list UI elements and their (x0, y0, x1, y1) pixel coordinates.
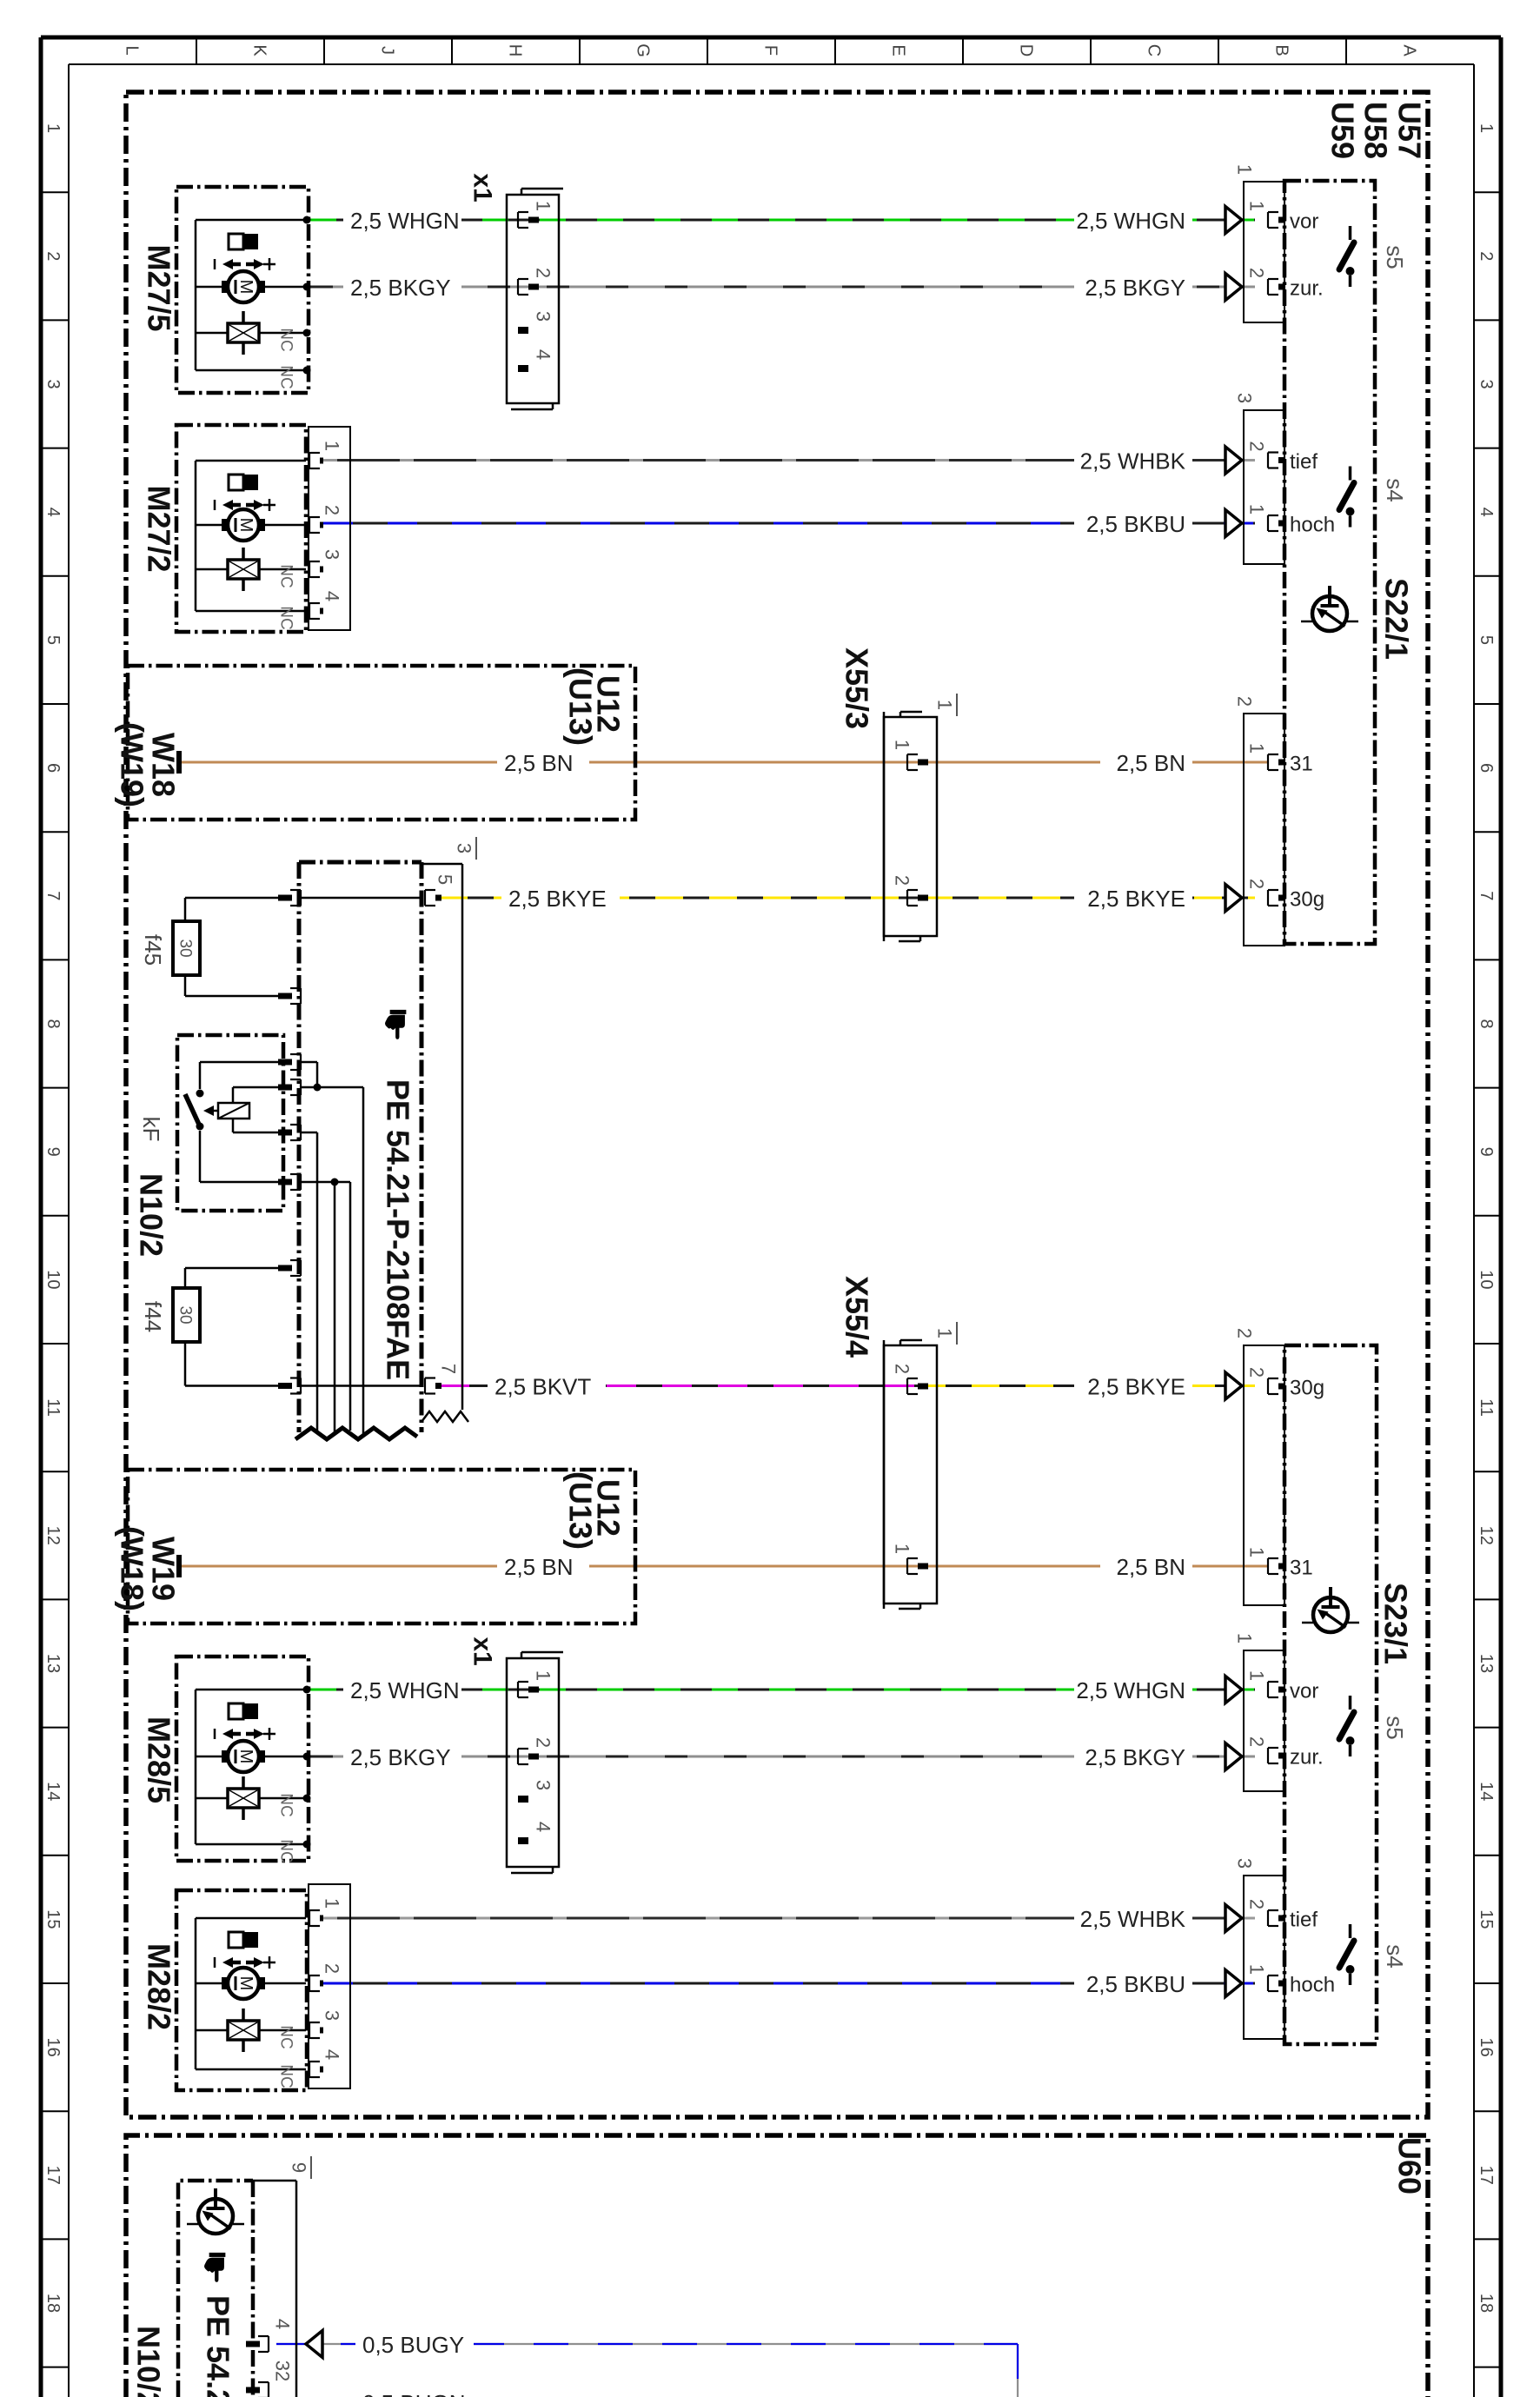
svg-text:2: 2 (1477, 251, 1496, 261)
svg-text:C: C (1145, 44, 1164, 56)
svg-text:5: 5 (434, 874, 455, 885)
svg-text:vor: vor (1290, 209, 1318, 233)
svg-text:2,5 BKGY: 2,5 BKGY (1085, 1744, 1185, 1770)
svg-text:2,5 WHBK: 2,5 WHBK (1080, 448, 1186, 475)
svg-text:5: 5 (1477, 635, 1496, 645)
svg-text:30g: 30g (1290, 1376, 1324, 1399)
svg-text:X55/3: X55/3 (839, 647, 874, 729)
svg-text:H: H (506, 44, 525, 56)
svg-text:1: 1 (933, 1328, 955, 1338)
svg-text:13: 13 (43, 1654, 63, 1673)
svg-text:NC: NC (276, 328, 295, 351)
svg-text:7: 7 (43, 891, 63, 900)
svg-text:2,5 WHGN: 2,5 WHGN (1076, 208, 1185, 234)
svg-text:2: 2 (1245, 1736, 1267, 1747)
svg-text:1: 1 (1233, 1633, 1255, 1643)
svg-text:3: 3 (321, 2010, 342, 2021)
svg-text:vor: vor (1290, 1679, 1318, 1703)
svg-text:G: G (634, 43, 653, 57)
svg-text:4: 4 (532, 1822, 554, 1832)
svg-text:4: 4 (321, 2049, 342, 2060)
svg-text:2,5 BKBU: 2,5 BKBU (1086, 1971, 1185, 1997)
svg-text:2,5 BKGY: 2,5 BKGY (1085, 275, 1185, 301)
svg-text:s4: s4 (1382, 1944, 1408, 1968)
svg-text:7: 7 (437, 1364, 459, 1374)
svg-text:NC: NC (276, 1793, 295, 1816)
svg-text:1: 1 (1245, 1547, 1267, 1557)
svg-text:X55/4: X55/4 (839, 1276, 874, 1358)
svg-text:2: 2 (1245, 268, 1267, 278)
svg-text:NC: NC (276, 606, 295, 629)
svg-text:6: 6 (43, 763, 63, 773)
svg-text:30: 30 (176, 1305, 194, 1324)
svg-text:3: 3 (532, 311, 554, 322)
svg-text:NC: NC (276, 2064, 295, 2088)
svg-text:11: 11 (43, 1398, 63, 1417)
svg-text:2: 2 (43, 251, 63, 261)
svg-text:2,5 WHGN: 2,5 WHGN (1076, 1677, 1185, 1703)
svg-text:D: D (1017, 44, 1036, 56)
svg-text:31: 31 (1290, 1556, 1313, 1579)
svg-text:f45: f45 (140, 934, 166, 966)
svg-text:S23/1: S23/1 (1377, 1583, 1413, 1664)
svg-text:2,5 BN: 2,5 BN (504, 1554, 574, 1580)
svg-text:tief: tief (1290, 450, 1318, 474)
svg-text:PE 54.21-P-2108FAE: PE 54.21-P-2108FAE (380, 1079, 415, 1380)
svg-text:1: 1 (532, 201, 554, 211)
svg-text:1: 1 (891, 1544, 913, 1554)
svg-text:NC: NC (276, 2025, 295, 2048)
svg-text:4: 4 (271, 2319, 293, 2329)
svg-text:4: 4 (1477, 508, 1496, 517)
svg-text:x1: x1 (468, 173, 497, 202)
svg-text:2,5 BKYE: 2,5 BKYE (1087, 1374, 1185, 1400)
svg-text:10: 10 (1477, 1270, 1496, 1289)
svg-text:E: E (889, 44, 908, 56)
svg-text:1: 1 (532, 1670, 554, 1681)
svg-text:2,5 WHGN: 2,5 WHGN (350, 1677, 460, 1703)
svg-text:N10/2: N10/2 (133, 1173, 169, 1257)
svg-text:K: K (250, 44, 269, 56)
svg-text:18: 18 (1477, 2294, 1496, 2313)
svg-text:3: 3 (532, 1780, 554, 1790)
svg-text:s5: s5 (1382, 245, 1408, 269)
svg-text:1: 1 (1245, 743, 1267, 754)
svg-text:6: 6 (1477, 763, 1496, 773)
svg-text:14: 14 (43, 1782, 63, 1801)
svg-text:0,5 BUGY: 0,5 BUGY (362, 2332, 464, 2358)
svg-text:N10/2: N10/2 (130, 2326, 166, 2397)
svg-text:2,5 WHGN: 2,5 WHGN (350, 208, 460, 234)
svg-text:2: 2 (321, 1963, 342, 1974)
svg-text:1: 1 (1245, 1670, 1267, 1681)
svg-text:3: 3 (1477, 379, 1496, 388)
svg-text:U60: U60 (1391, 2137, 1427, 2194)
svg-text:hoch: hoch (1290, 1973, 1335, 1996)
svg-text:18: 18 (43, 2294, 63, 2313)
svg-text:17: 17 (43, 2166, 63, 2185)
svg-text:32: 32 (271, 2360, 293, 2381)
svg-text:M27/2: M27/2 (141, 485, 176, 572)
svg-text:NC: NC (276, 564, 295, 588)
svg-text:2,5 BKGY: 2,5 BKGY (350, 275, 451, 301)
svg-text:12: 12 (43, 1526, 63, 1545)
svg-text:kF: kF (138, 1117, 164, 1142)
svg-text:2,5 BKBU: 2,5 BKBU (1086, 511, 1185, 537)
svg-text:3: 3 (43, 379, 63, 388)
svg-text:9: 9 (43, 1147, 63, 1157)
svg-text:(W18): (W18) (114, 1526, 149, 1611)
svg-text:2: 2 (1245, 879, 1267, 889)
svg-text:s5: s5 (1382, 1716, 1408, 1739)
svg-text:NC: NC (276, 365, 295, 388)
svg-text:12: 12 (1477, 1526, 1496, 1545)
svg-text:15: 15 (43, 1909, 63, 1929)
svg-text:NC: NC (276, 1839, 295, 1862)
svg-text:16: 16 (1477, 2037, 1496, 2056)
svg-text:4: 4 (532, 349, 554, 360)
svg-text:2,5 BKVT: 2,5 BKVT (495, 1374, 591, 1400)
svg-text:2: 2 (891, 875, 913, 886)
svg-text:M28/5: M28/5 (141, 1716, 176, 1803)
svg-text:3: 3 (453, 843, 475, 853)
svg-text:F: F (761, 45, 780, 56)
svg-text:hoch: hoch (1290, 513, 1335, 536)
svg-text:14: 14 (1477, 1782, 1496, 1801)
svg-text:2: 2 (532, 1737, 554, 1748)
svg-text:3: 3 (321, 549, 342, 560)
svg-text:5: 5 (43, 635, 63, 645)
svg-text:M28/2: M28/2 (141, 1943, 176, 2030)
svg-text:2,5 BN: 2,5 BN (1117, 1554, 1186, 1580)
svg-text:U59: U59 (1324, 102, 1360, 159)
svg-text:s4: s4 (1382, 478, 1408, 501)
svg-text:2: 2 (1233, 1328, 1255, 1338)
svg-text:(U13): (U13) (562, 667, 598, 746)
svg-text:17: 17 (1477, 2166, 1496, 2185)
svg-text:zur.: zur. (1290, 1745, 1324, 1769)
svg-text:1: 1 (1477, 123, 1496, 133)
svg-text:11: 11 (1477, 1398, 1496, 1417)
svg-text:1: 1 (1245, 201, 1267, 211)
svg-text:1: 1 (1233, 164, 1255, 175)
svg-text:S22/1: S22/1 (1378, 578, 1414, 660)
svg-text:2: 2 (1245, 441, 1267, 451)
svg-text:4: 4 (43, 508, 63, 517)
svg-text:3: 3 (1233, 393, 1255, 403)
svg-text:1: 1 (933, 700, 955, 710)
svg-text:M: M (236, 280, 256, 295)
svg-text:9: 9 (1477, 1147, 1496, 1157)
svg-text:W19: W19 (145, 1537, 181, 1601)
svg-text:U58: U58 (1357, 102, 1393, 159)
svg-text:4: 4 (321, 591, 342, 601)
svg-text:0,5 BUGN: 0,5 BUGN (362, 2390, 466, 2397)
svg-text:2: 2 (1245, 1367, 1267, 1378)
svg-text:10: 10 (43, 1270, 63, 1289)
svg-text:1: 1 (891, 740, 913, 750)
svg-text:tief: tief (1290, 1908, 1318, 1931)
svg-text:1: 1 (321, 1898, 342, 1909)
svg-text:2,5 BKYE: 2,5 BKYE (1087, 886, 1185, 912)
svg-text:16: 16 (43, 2037, 63, 2056)
svg-text:zur.: zur. (1290, 276, 1324, 300)
svg-text:PE 54.21-P-2108FAE: PE 54.21-P-2108FAE (200, 2295, 236, 2397)
svg-text:30g: 30g (1290, 887, 1324, 911)
svg-text:8: 8 (43, 1019, 63, 1028)
svg-text:2,5 BN: 2,5 BN (504, 750, 574, 776)
svg-text:2,5 BKYE: 2,5 BKYE (508, 886, 607, 912)
svg-text:15: 15 (1477, 1909, 1496, 1929)
svg-text:1: 1 (1245, 1964, 1267, 1975)
svg-text:M: M (236, 1976, 256, 1991)
svg-text:31: 31 (1290, 752, 1313, 775)
svg-text:(U13): (U13) (562, 1471, 598, 1550)
svg-text:f44: f44 (140, 1301, 166, 1332)
svg-text:2: 2 (1245, 1899, 1267, 1909)
svg-text:1: 1 (1245, 504, 1267, 515)
svg-text:3: 3 (1233, 1858, 1255, 1869)
svg-text:L: L (123, 45, 142, 55)
svg-text:2: 2 (1233, 696, 1255, 707)
svg-text:13: 13 (1477, 1654, 1496, 1673)
svg-text:2,5 BN: 2,5 BN (1117, 750, 1186, 776)
svg-text:M: M (236, 1750, 256, 1764)
svg-text:2: 2 (891, 1364, 913, 1374)
svg-text:9: 9 (288, 2162, 309, 2173)
svg-text:2: 2 (321, 505, 342, 515)
svg-text:8: 8 (1477, 1019, 1496, 1028)
svg-text:A: A (1400, 44, 1419, 56)
svg-text:U57: U57 (1391, 102, 1427, 159)
svg-text:1: 1 (43, 123, 63, 133)
svg-text:M27/5: M27/5 (141, 244, 176, 331)
svg-text:2,5 BKGY: 2,5 BKGY (350, 1744, 451, 1770)
svg-text:1: 1 (321, 441, 342, 451)
svg-text:J: J (378, 46, 397, 55)
svg-text:B: B (1272, 44, 1291, 56)
svg-text:M: M (236, 518, 256, 533)
svg-text:2: 2 (532, 268, 554, 278)
svg-text:7: 7 (1477, 891, 1496, 900)
svg-text:30: 30 (176, 939, 194, 957)
svg-text:x1: x1 (468, 1637, 497, 1665)
svg-text:W18: W18 (145, 733, 181, 797)
svg-text:2,5 WHBK: 2,5 WHBK (1080, 1906, 1186, 1932)
svg-text:(W19): (W19) (114, 722, 149, 807)
